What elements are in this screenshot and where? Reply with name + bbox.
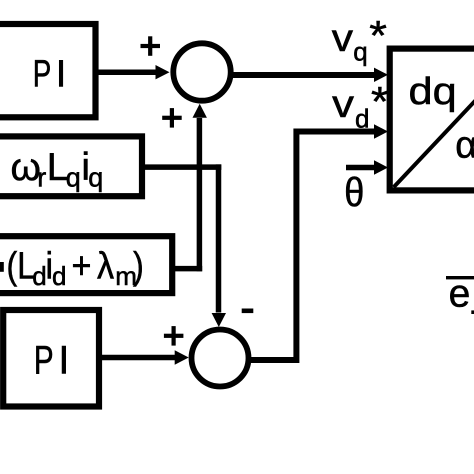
svg-text:P: P (34, 338, 54, 382)
label e^jtheta rotation operator (clipped at canvas edge) (446, 272, 474, 315)
arrowhead into S1 left (156, 65, 170, 79)
svg-text:q: q (353, 37, 367, 67)
minus sign at S2 top input (242, 309, 254, 314)
svg-text:r: r (37, 163, 46, 193)
svg-text:λ: λ (97, 244, 114, 287)
svg-text:I: I (56, 54, 67, 96)
arrowhead vq* into dq block (374, 68, 388, 82)
plus sign at S1 upper-left input (141, 36, 161, 56)
arrowhead into S2 left (175, 350, 189, 364)
svg-text:+: + (72, 244, 92, 287)
svg-text:dq: dq (409, 69, 457, 112)
svg-text:*: * (369, 13, 387, 60)
block G1: wr*Lq*iq (0, 136, 142, 196)
wire S2 output vd*: horizontal, riser up, into dq block (248, 132, 374, 361)
label vd* (332, 79, 389, 134)
svg-text:θ: θ (344, 170, 364, 216)
svg-text:d: d (52, 261, 66, 291)
plus sign at S2 upper-left input (164, 326, 184, 346)
summing junction S2 (192, 330, 249, 387)
svg-text:P: P (33, 53, 52, 95)
svg-text:(L: (L (7, 245, 36, 287)
wire G1 output horizontal to riser (142, 164, 221, 170)
clipped subscript r fragment at canvas left edge (0, 262, 4, 272)
svg-text:*: * (371, 79, 389, 126)
svg-text:v: v (332, 16, 354, 60)
wire theta input into dq block (346, 165, 374, 171)
wire G2 riser up to S1 bottom (197, 118, 203, 271)
block G2: wr(Ld*id+lambda_m) (0, 236, 172, 293)
block T1: dq to alpha-beta transform (390, 32, 474, 190)
plus sign at S1 lower input (162, 108, 182, 128)
arrowhead up into S1 bottom (193, 104, 207, 118)
arrowhead theta into dq block (374, 160, 388, 174)
svg-text:d: d (32, 261, 46, 291)
svg-text:q: q (66, 163, 81, 193)
svg-text:q: q (88, 162, 103, 192)
label vq* (332, 13, 387, 67)
svg-text:I: I (58, 339, 69, 383)
wire G1 riser down to S2 (216, 164, 222, 312)
wire PI U2 output to S2 (99, 355, 176, 361)
block PI U1 (q-axis current PI controller) (0, 24, 96, 117)
svg-text:v: v (332, 82, 354, 125)
block PI U2 (d-axis current PI controller) (3, 310, 99, 407)
svg-text:): ) (133, 245, 144, 287)
wire PI U1 output to summing junction S1 (96, 69, 159, 75)
arrowhead down into S2 top (212, 313, 226, 327)
wire S1 output vq* to dq block (231, 72, 375, 78)
arrowhead vd* into dq block (374, 124, 388, 138)
diagonal divider of T1 (394, 32, 474, 187)
wire G2 output horizontal to riser (172, 266, 202, 272)
summing junction S1 (173, 43, 230, 100)
svg-text:d: d (355, 103, 369, 133)
svg-text:αβ: αβ (455, 125, 474, 167)
svg-text:e: e (449, 272, 471, 315)
